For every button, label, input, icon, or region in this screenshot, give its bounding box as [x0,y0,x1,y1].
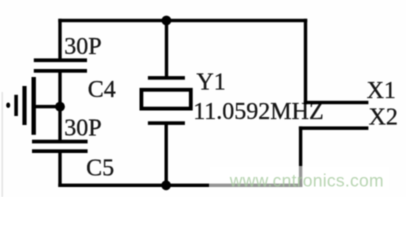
wire: crystal Y1 top lead vertical [165,19,168,78]
ground bar 4 (dot) [6,103,10,108]
wire: left vertical from top wire to C4 [58,19,61,60]
capacitor C5 bottom plate [32,149,88,153]
svg-text:X1: X1 [367,78,396,104]
wire: left vertical from C5 to bottom wire [58,153,61,188]
wire: X1 terminal lead horizontal [304,101,369,104]
wire: ground stub horizontal [33,105,60,108]
capacitor C4 top plate [34,58,87,62]
svg-text:30P: 30P [64,115,101,141]
ground bar 3 [14,95,18,116]
wire: top net horizontal (C4 top to X1 branch) [58,19,307,22]
crystal Y1 body rectangle [141,90,190,109]
svg-text:C5: C5 [86,155,114,181]
wire: bottom net horizontal (C5 to X2 branch) [58,184,302,187]
wire: right vertical from top wire down to X1 lead [304,19,307,104]
node: junction of crystal bottom lead with bottom wire [161,180,171,190]
ground bar 2 [22,86,26,125]
wire: crystal Y1 bottom lead vertical [165,124,168,186]
node: junction of ground with left vertical [55,102,65,112]
wire: X2 terminal lead horizontal [299,126,369,129]
wire: left vertical between C4 and C5 [58,72,61,141]
capacitor C4 bottom plate [34,69,87,73]
scan artifact: faint left edge line [2,92,3,197]
svg-text:Y1: Y1 [196,70,225,96]
node: junction of crystal top lead with top wire [162,16,172,26]
svg-text:X2: X2 [369,105,398,131]
svg-text:C4: C4 [88,77,116,103]
crystal Y1 top plate [148,76,185,80]
svg-text:30P: 30P [64,34,101,60]
watermark glow backdrop [209,166,390,191]
crystal Y1 bottom plate [148,121,185,125]
capacitor C5 top plate [32,140,88,144]
svg-text:www.cntronics.com: www.cntronics.com [229,170,384,190]
wire: X2 branch vertical down to bottom wire [299,126,302,187]
ground bar 1 (tallest) [32,77,36,135]
